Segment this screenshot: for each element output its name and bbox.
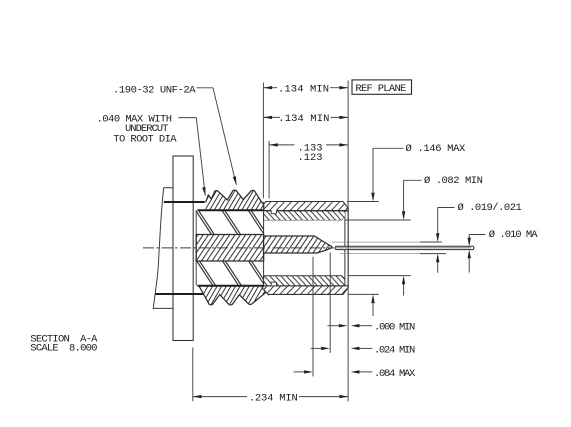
dia .019/.021 leader — [438, 207, 455, 209]
thread strip top: hatched zigzag — [200, 188, 272, 212]
dim row2 .134 MIN y=117.4 — [263, 116, 280, 118]
.000 row arrows — [339, 324, 348, 327]
centerline — [143, 247, 334, 249]
svg-text:.123: .123 — [298, 152, 323, 164]
dielectric face line in bore — [344, 217, 346, 279]
.084 row arrows — [304, 370, 313, 373]
shell top wall — [264, 202, 348, 211]
dia .010 leader — [469, 234, 485, 236]
.234 MIN row y=396.6 — [193, 396, 247, 398]
svg-text:.234 MIN: .234 MIN — [249, 393, 298, 405]
notch top — [271, 210, 277, 214]
body hatched block top: paired section lines — [196, 210, 264, 234]
body left edge — [195, 210, 197, 285]
svg-text:Ø .019/.021: Ø .019/.021 — [458, 202, 522, 214]
svg-text:TO ROOT DIA: TO ROOT DIA — [113, 133, 177, 145]
undercut shoulder stub top — [164, 201, 205, 203]
dia .146 leader — [373, 147, 404, 149]
thread runout cone bottom — [262, 288, 269, 295]
dim row3 .133/.123 y=144.9 — [269, 144, 294, 146]
notch bottom — [271, 282, 276, 285]
.234 row arrows — [193, 395, 202, 398]
REF PLANE box — [352, 80, 412, 94]
center contact narrow section with tapered tip — [264, 236, 332, 253]
shell bottom wall — [262, 286, 348, 295]
leader .040 arrow — [202, 187, 205, 196]
leader .190-32 arrow (pointing down-right along dir 0.233,0.97) — [233, 176, 237, 185]
svg-text:Ø .146 MAX: Ø .146 MAX — [406, 143, 467, 155]
flange body — [173, 156, 193, 341]
dia .010 arrows — [468, 238, 471, 247]
extension line: shell shoulder (left, x=263.4) — [262, 83, 264, 199]
row1 — [263, 86, 272, 89]
svg-text:.024 MIN: .024 MIN — [374, 344, 415, 356]
thread root line top (thick) — [198, 209, 264, 211]
dielectric top band — [264, 211, 349, 220]
flange break-out wavy line — [153, 188, 173, 309]
thread root line bottom (thick) — [198, 285, 264, 287]
dia .082 arrows — [402, 211, 405, 220]
svg-text:Ø .010 MAX: Ø .010 MAX — [489, 229, 544, 241]
svg-text:.000 MIN: .000 MIN — [374, 322, 415, 334]
row3 — [269, 143, 278, 146]
svg-text:Ø .082 MIN: Ø .082 MIN — [424, 175, 483, 187]
row2 — [263, 116, 272, 119]
arrowheads — [193, 86, 471, 398]
leader .190-32 — [197, 87, 214, 89]
dim row1 .134 MIN y=87.7 — [263, 87, 277, 89]
shell left edge above/below bore — [263, 202, 265, 236]
extension stubs for pin dia — [420, 241, 442, 243]
extension line: flange right face for .234 — [192, 348, 194, 402]
body hatched block bottom: paired section lines — [197, 261, 264, 286]
svg-text:REF PLANE: REF PLANE — [355, 83, 406, 95]
extension line: x=269.1 for .133/.123 — [268, 141, 270, 198]
thread profile outline bottom — [199, 286, 274, 305]
metal wall inner line top — [264, 210, 349, 212]
dia .082 leader — [404, 179, 422, 181]
dia .146 arrows — [371, 193, 374, 202]
undercut shoulder stub bottom — [156, 293, 205, 295]
svg-text:.134 MIN: .134 MIN — [278, 84, 329, 96]
terminal pin — [335, 246, 474, 249]
centerline through pin — [336, 247, 471, 249]
svg-text:SCALE 8.000: SCALE 8.000 — [30, 343, 97, 355]
shoulder line before shell top — [250, 204, 263, 206]
dielectric bottom band — [264, 276, 345, 286]
leader .040 — [179, 117, 197, 119]
dia .019/.021 arrows — [436, 233, 439, 242]
.000 MIN row y=325.7 — [328, 325, 341, 327]
svg-text:.190-32 UNF-2A: .190-32 UNF-2A — [113, 84, 196, 96]
shell front face / ref plane edge — [347, 208, 349, 288]
thread strip bottom: hatched zigzag — [196, 284, 277, 307]
svg-text:.084 MAX: .084 MAX — [374, 368, 416, 380]
extension line: contact taper start x=313 — [312, 257, 314, 377]
pin dia extension line faint — [332, 241, 422, 243]
center contact main block — [196, 235, 263, 262]
.024 row arrows — [321, 347, 330, 350]
extension line: REF plane x=348.1 — [347, 81, 349, 402]
svg-text:.134 MIN: .134 MIN — [278, 113, 329, 125]
thread profile outline top — [206, 190, 263, 204]
extension line: contact tip x=330.2 — [329, 253, 331, 353]
.024 MIN row y=348.4 — [311, 347, 322, 349]
.084 MAX row y=371.9 — [294, 371, 305, 373]
